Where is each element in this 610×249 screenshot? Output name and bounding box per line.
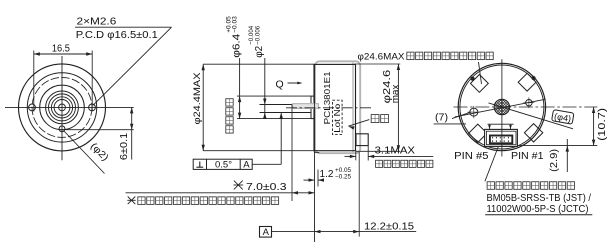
svg-text:(7): (7) (435, 112, 448, 123)
svg-text:(10.7): (10.7) (597, 108, 608, 141)
svg-text:−0.03: −0.03 (232, 16, 239, 33)
svg-text:φ6.4: φ6.4 (231, 33, 242, 58)
svg-text:A: A (243, 159, 250, 170)
svg-text:φ2: φ2 (254, 45, 265, 57)
svg-text:0.5°: 0.5° (215, 159, 232, 170)
svg-text:φ24.4MAX: φ24.4MAX (192, 72, 203, 125)
svg-text:7.0±0.3: 7.0±0.3 (246, 182, 287, 193)
svg-text:6±0.1: 6±0.1 (119, 132, 130, 160)
svg-text:φ24.6MAX: φ24.6MAX (358, 51, 406, 62)
svg-text:1.2: 1.2 (320, 169, 334, 180)
svg-text:max: max (390, 85, 401, 104)
svg-text:−0.25: −0.25 (335, 173, 351, 180)
svg-text:11002W00-5P-S (JCTC): 11002W00-5P-S (JCTC) (487, 204, 589, 215)
svg-text:PCL3801E1: PCL3801E1 (322, 71, 332, 124)
svg-text:16.5: 16.5 (52, 44, 70, 55)
svg-text:PIN #5: PIN #5 (454, 151, 489, 162)
svg-text:A: A (263, 227, 270, 238)
svg-text:Lot No: Lot No (333, 103, 342, 133)
svg-text:3.1MAX: 3.1MAX (375, 145, 416, 156)
svg-text:−0.006: −0.006 (255, 26, 262, 45)
svg-text:(2.9): (2.9) (549, 149, 560, 172)
svg-text:P.C.D φ16.5±0.1: P.C.D φ16.5±0.1 (76, 30, 158, 41)
svg-text:2×M2.6: 2×M2.6 (77, 17, 117, 28)
svg-text:BM05B-SRSS-TB (JST) /: BM05B-SRSS-TB (JST) / (487, 193, 592, 204)
svg-text:12.2±0.15: 12.2±0.15 (364, 221, 414, 232)
svg-text:Q: Q (276, 79, 284, 91)
svg-text:PIN #1: PIN #1 (511, 151, 544, 162)
